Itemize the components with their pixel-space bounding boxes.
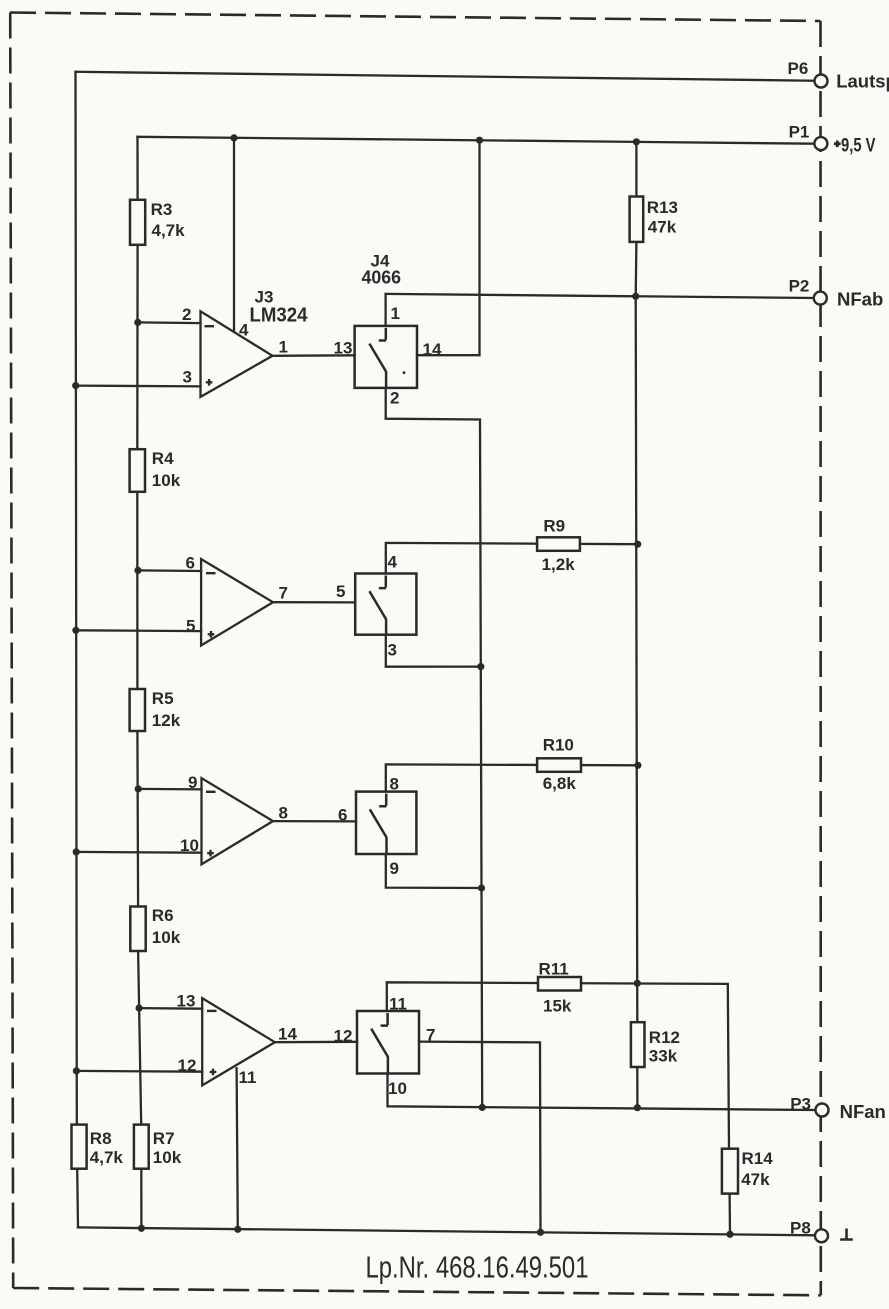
svg-text:6: 6 — [186, 554, 195, 573]
svg-text:13: 13 — [334, 339, 353, 358]
svg-text:47k: 47k — [648, 217, 677, 236]
ground symbol at P8 — [840, 1229, 853, 1240]
svg-text:10k: 10k — [152, 471, 181, 490]
junction input 3 tap — [72, 382, 79, 389]
junction input 9 tap — [135, 785, 142, 792]
resistor R11 — [538, 977, 581, 991]
svg-text:LM324: LM324 — [250, 304, 309, 326]
svg-text:7: 7 — [279, 583, 288, 602]
analog switch S4 (4066 section, pins 12/11/10/7) — [357, 1011, 419, 1074]
svg-text:15k: 15k — [543, 997, 572, 1016]
wire switch S3 pin 8 riser and R10 net — [386, 764, 638, 791]
wire R12 bottom lead to P3 — [636, 1067, 638, 1108]
svg-text:1: 1 — [279, 337, 288, 356]
wire switch S4 pin 11 riser and R11 net — [387, 982, 729, 1148]
svg-text:6,8k: 6,8k — [543, 774, 577, 793]
wire chain segment R7 to ground bus — [140, 1169, 142, 1229]
svg-text:R9: R9 — [543, 516, 565, 535]
op-amp U1B plus mark — [208, 631, 215, 638]
wire chain segment R5 to R6 — [136, 731, 139, 907]
svg-text:P3: P3 — [790, 1094, 811, 1113]
wire switch S2 pin 3 to NFan bus — [386, 635, 481, 667]
svg-text:33k: 33k — [649, 1047, 678, 1066]
wire switch S4 pin 10 to P3 NFan net — [388, 1074, 814, 1111]
junction R11 at NFab column — [634, 980, 641, 987]
wire input 6 of op-amp U1B — [138, 569, 201, 572]
svg-text:3: 3 — [388, 640, 397, 659]
svg-text:4: 4 — [388, 552, 398, 571]
svg-text:14: 14 — [423, 340, 442, 359]
junction S3 pin9 to NFan bus — [478, 884, 485, 891]
junction input 12 tap — [73, 1067, 80, 1074]
wire output 14 of op-amp U1D to switch pin 12 — [275, 1041, 357, 1044]
junction R12 at P3 wire — [634, 1104, 641, 1111]
svg-text:8: 8 — [279, 803, 288, 822]
terminal P8 — [815, 1229, 828, 1242]
svg-text:R8: R8 — [90, 1129, 112, 1148]
op-amp U1C minus mark — [206, 791, 216, 793]
junction input 10 tap — [73, 848, 80, 855]
junction R10 right end — [634, 762, 641, 769]
svg-text:R11: R11 — [539, 960, 569, 979]
terminal P2 — [814, 292, 827, 305]
wire R13 bottom lead to P2 — [635, 242, 638, 296]
svg-text:2: 2 — [182, 305, 191, 324]
svg-text:12: 12 — [334, 1027, 353, 1046]
svg-text:Lautsprecher: Lautsprecher — [836, 70, 889, 91]
wire switch S1 pin 1 riser — [384, 294, 386, 326]
svg-text:4: 4 — [239, 320, 249, 339]
svg-text:8: 8 — [390, 775, 399, 794]
wire P2 NFab net horizontal — [386, 294, 814, 298]
resistor R8 — [72, 1125, 87, 1169]
terminal P1 — [814, 137, 827, 150]
svg-text:P8: P8 — [790, 1219, 811, 1238]
svg-text:10k: 10k — [152, 928, 181, 947]
junction on P1 wire at R13 — [633, 138, 640, 145]
wire input 5 of op-amp U1B — [76, 629, 201, 632]
svg-text:10: 10 — [180, 836, 199, 855]
svg-text:11: 11 — [239, 1068, 257, 1087]
svg-text:1,2k: 1,2k — [542, 555, 576, 574]
wire NFab column bus P2 down to R12 — [636, 296, 638, 1022]
op-amp U1C plus mark — [207, 850, 214, 857]
op-amp U1A plus mark — [206, 379, 213, 386]
junction input 5 tap — [72, 627, 79, 634]
svg-text:47k: 47k — [741, 1170, 770, 1189]
junction on P2 wire at R13 — [632, 293, 639, 300]
svg-text:9,5 V: 9,5 V — [841, 135, 876, 156]
wire pin 4 power riser of op-amp U1A — [233, 138, 235, 331]
svg-text:4,7k: 4,7k — [152, 221, 186, 240]
analog switch S2 (4066 section, pins 5/4/3) — [355, 574, 416, 635]
svg-text:R7: R7 — [153, 1129, 175, 1148]
wire R8 bottom lead to ground bus — [76, 1169, 79, 1228]
op-amp U1C triangle — [202, 778, 274, 864]
terminal P3 — [816, 1104, 829, 1117]
wire input 3 of op-amp U1A — [76, 384, 201, 387]
svg-text:12k: 12k — [152, 711, 181, 730]
svg-text:R6: R6 — [152, 906, 174, 925]
wire P1 +9,5V net horizontal — [138, 137, 815, 144]
wire left bus vertical (op-amp + input bus) — [76, 72, 77, 1125]
svg-text:12: 12 — [178, 1056, 197, 1075]
svg-text:NFan: NFan — [840, 1101, 886, 1122]
svg-text:6: 6 — [338, 805, 347, 824]
op-amp U1B minus mark — [206, 572, 216, 574]
wire switch S1 pin 2 down to NFan bus — [386, 388, 483, 1108]
junction input 13 tap — [136, 1005, 143, 1012]
svg-text:P6: P6 — [788, 59, 809, 78]
wire input 2 of op-amp U1A — [138, 321, 201, 324]
svg-text:R3: R3 — [151, 200, 173, 219]
svg-text:P1: P1 — [789, 123, 810, 142]
resistor R10 — [537, 758, 581, 772]
svg-text:7: 7 — [426, 1025, 435, 1044]
svg-text:P2: P2 — [789, 277, 810, 296]
op-amp U1D triangle — [202, 998, 275, 1085]
wire output 7 of op-amp U1B to switch pin 5 — [273, 601, 355, 604]
svg-text:4,7k: 4,7k — [90, 1148, 124, 1167]
svg-text:9: 9 — [188, 773, 197, 792]
wire input 9 of op-amp U1C — [138, 788, 201, 791]
junction R7 at ground bus — [138, 1225, 145, 1232]
op-amp U1B triangle — [201, 559, 273, 646]
svg-text:Lp.Nr. 468.16.49.501: Lp.Nr. 468.16.49.501 — [366, 1250, 589, 1285]
wire switch S1 pin 14 VDD link to P1 bus — [417, 140, 480, 355]
op-amp U1A triangle (J3 LM324) — [201, 311, 273, 397]
svg-text:NFab: NFab — [837, 289, 883, 310]
svg-text:R5: R5 — [152, 689, 174, 708]
svg-text:R4: R4 — [152, 449, 174, 468]
wire R13 top lead from P1 — [635, 142, 637, 197]
svg-text:14: 14 — [278, 1025, 297, 1044]
svg-text:1: 1 — [391, 304, 400, 323]
wire op-amp U1D pin 11 riser to ground bus — [237, 1068, 238, 1229]
analog switch S3 (4066 section, pins 6/8/9) — [356, 792, 416, 854]
junction input 2 tap — [134, 319, 141, 326]
svg-text:R13: R13 — [647, 198, 678, 217]
svg-text:4066: 4066 — [362, 268, 402, 288]
op-amp U1D minus mark — [207, 1010, 217, 1012]
svg-text:11: 11 — [389, 995, 407, 1014]
svg-text:5: 5 — [336, 582, 345, 601]
junction on P1 wire at op-amp pin4 riser — [230, 134, 237, 141]
op-amp U1A minus mark — [205, 325, 215, 327]
resistor R9 — [537, 537, 580, 551]
wire chain segment R3 to R4 — [136, 245, 139, 449]
resistor R3 — [130, 200, 145, 245]
junction R14 at ground bus — [726, 1231, 733, 1238]
wire chain segment R4 to R5 — [136, 492, 138, 689]
junction R9 right end — [634, 541, 641, 548]
svg-text:R14: R14 — [742, 1149, 774, 1168]
wire switch S4 pin 7 down to ground bus — [419, 1042, 541, 1233]
wire output 1 of op-amp U1A to switch pin 13 — [273, 354, 355, 357]
svg-text:10k: 10k — [153, 1148, 182, 1167]
resistor R7 — [134, 1125, 149, 1169]
wire input 13 of op-amp U1D — [139, 1007, 202, 1010]
junction input 6 tap — [134, 567, 141, 574]
wire switch S2 pin 4 riser and R9 net — [386, 543, 638, 574]
svg-text:10: 10 — [388, 1079, 407, 1098]
wire R14 bottom lead to ground bus — [728, 1194, 731, 1235]
op-amp U1D plus mark — [210, 1069, 217, 1076]
wire P6/Lautsprecher net horizontal — [76, 72, 815, 81]
wire chain segment R6 to R7 — [138, 951, 141, 1125]
junction S2 pin3 to NFan bus — [477, 663, 484, 670]
svg-text:9: 9 — [390, 859, 399, 878]
wire chain segment P1 to R3 — [136, 137, 138, 200]
svg-text:R10: R10 — [543, 736, 574, 755]
resistor R4 — [130, 449, 145, 492]
wire switch S3 pin 9 to NFan bus — [386, 854, 482, 888]
svg-text:13: 13 — [177, 992, 196, 1011]
plus sign of +9,5V — [834, 141, 841, 148]
svg-text:3: 3 — [183, 367, 192, 386]
resistor R6 — [130, 907, 145, 952]
svg-text:5: 5 — [186, 617, 195, 636]
wire ground bus to P8 — [78, 1227, 815, 1235]
wire input 10 of op-amp U1C — [76, 851, 201, 854]
junction NFan bus at P3 wire — [479, 1104, 486, 1111]
junction on P1 wire at VDD bus — [476, 137, 483, 144]
junction S4 pin7 at ground bus — [537, 1229, 544, 1236]
resistor R14 — [722, 1149, 738, 1194]
wire output 8 of op-amp U1C to switch pin 6 — [273, 820, 356, 823]
resistor R5 — [130, 689, 145, 731]
resistor R13 — [630, 197, 644, 242]
svg-text:2: 2 — [390, 388, 399, 407]
wire input 12 of op-amp U1D — [76, 1070, 202, 1073]
analog switch S1 (J4 4066 section, pins 13/1/2/14) — [355, 326, 417, 388]
resistor R12 — [631, 1022, 645, 1067]
terminal P6 — [815, 75, 828, 88]
junction op-amp pin11 riser at ground bus — [234, 1226, 241, 1233]
svg-text:R12: R12 — [649, 1028, 680, 1047]
